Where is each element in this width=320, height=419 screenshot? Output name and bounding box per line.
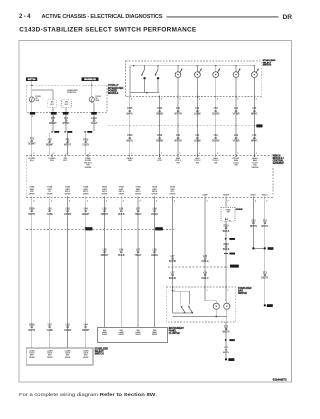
pin tick bottom row 11 bbox=[226, 196, 229, 202]
pin tick top row 6 bbox=[160, 153, 163, 157]
svg-text:DRVR: DRVR bbox=[83, 194, 89, 196]
cluster pin label 4 bbox=[152, 330, 158, 336]
wire switch output 6 upper segment bbox=[235, 96, 237, 155]
svg-text:2: 2 bbox=[217, 153, 218, 155]
wire switch output 1 upper segment bbox=[129, 96, 131, 155]
connector C310 in-line on diode output bbox=[225, 238, 235, 240]
svg-text:PK/LB: PK/LB bbox=[118, 255, 125, 257]
indicator lamp DS2 bbox=[224, 288, 230, 316]
wire module output 5 to connector row bbox=[104, 198, 106, 230]
wire harness mid 3 to cluster box bbox=[137, 229, 139, 327]
svg-text:2: 2 bbox=[256, 153, 257, 155]
wire label lamp feed lower bbox=[169, 273, 176, 280]
ground G302 bbox=[225, 358, 235, 361]
node ignition feed junction bbox=[91, 84, 93, 86]
wire label F91 20 WT lower bbox=[64, 139, 72, 146]
svg-text:PK/LB: PK/LB bbox=[118, 214, 125, 216]
cluster name label bbox=[169, 328, 185, 335]
svg-text:4: 4 bbox=[266, 201, 267, 203]
svg-text:4: 4 bbox=[33, 201, 34, 203]
svg-text:3: 3 bbox=[237, 99, 238, 101]
wire label module output 6 bbox=[118, 209, 125, 216]
wire relay K1 to TIPM pin bbox=[52, 107, 54, 112]
wire switch output 7 upper segment bbox=[253, 96, 255, 155]
pin tick bottom row 2 bbox=[50, 196, 53, 202]
svg-text:4: 4 bbox=[87, 201, 88, 203]
page header text bbox=[19, 13, 163, 20]
svg-text:DRVR: DRVR bbox=[118, 194, 124, 196]
svg-text:DRVR: DRVR bbox=[47, 194, 53, 196]
wire circuit F91 lower bbox=[67, 133, 69, 156]
junction pin mark row C2 wire 2 bbox=[159, 125, 161, 127]
pin 4 TIPM connector bbox=[91, 112, 97, 118]
pin function label bottom 3 bbox=[65, 186, 71, 196]
pin 5 switch connector tick bbox=[216, 96, 218, 101]
power feed label BATT A0 bbox=[26, 77, 37, 81]
svg-text:BK/TN: BK/TN bbox=[223, 332, 230, 334]
svg-text:4: 4 bbox=[69, 201, 70, 203]
module TIPM (Totally Integrated Power Module) dashed outline bbox=[26, 85, 107, 112]
pin tick top row 10 bbox=[236, 153, 239, 157]
svg-text:WT/TN: WT/TN bbox=[174, 113, 182, 115]
svg-text:SW: SW bbox=[234, 165, 237, 167]
node bus junction 4 bbox=[177, 65, 179, 67]
svg-text:YL/GY: YL/GY bbox=[82, 145, 89, 147]
svg-text:DRVR: DRVR bbox=[152, 334, 158, 336]
wire label mid 2 lower bbox=[118, 250, 125, 257]
svg-text:GND 1: GND 1 bbox=[251, 194, 257, 196]
pin 6 switch connector tick bbox=[236, 96, 238, 101]
wire label circuit 1 upper bbox=[127, 108, 134, 115]
svg-text:DRVR: DRVR bbox=[65, 357, 71, 359]
svg-text:4: 4 bbox=[228, 201, 229, 203]
pin tick top row 9 bbox=[216, 153, 219, 157]
wire label module output 5 bbox=[101, 209, 109, 216]
junction pin mark row C2 wire 1 bbox=[129, 125, 131, 127]
svg-text:BK/TN: BK/TN bbox=[28, 214, 35, 216]
svg-text:DG/WT: DG/WT bbox=[28, 144, 36, 146]
pin function label bottom 8 bbox=[152, 186, 158, 196]
svg-text:LB/RD: LB/RD bbox=[151, 255, 158, 257]
svg-text:2: 2 bbox=[131, 153, 132, 155]
svg-text:SW: SW bbox=[214, 162, 217, 164]
connector C1 label bbox=[85, 227, 93, 230]
svg-text:BK/OR: BK/OR bbox=[169, 261, 176, 263]
wire label module output 4 bbox=[82, 209, 90, 216]
fuse F2 value label bbox=[95, 96, 101, 102]
pin tick top row 7 bbox=[178, 153, 181, 157]
svg-text:2: 2 bbox=[33, 153, 34, 155]
svg-text:WT/VT: WT/VT bbox=[64, 145, 72, 147]
junction mark row C1 wire 3 bbox=[67, 228, 69, 230]
svg-text:RLY: RLY bbox=[65, 104, 69, 106]
pin function label position 2 bbox=[194, 157, 201, 164]
cluster pin label 3 bbox=[135, 330, 141, 336]
pin tick bottom row 5 bbox=[105, 196, 108, 202]
svg-text:BK/TN: BK/TN bbox=[261, 278, 268, 280]
pin tick bottom row 12 bbox=[253, 196, 256, 202]
wire circuit F202 from TIPM pin 4 upper bbox=[93, 115, 95, 132]
pin function label position 1 bbox=[175, 157, 182, 164]
svg-text:SW: SW bbox=[176, 162, 179, 164]
wire label circuit 5 lower bbox=[212, 135, 220, 142]
wire label circuit 4 upper bbox=[194, 108, 201, 115]
wire label left 3 lower bbox=[64, 325, 72, 332]
switch assembly pin label 4 bbox=[83, 350, 89, 359]
svg-text:DRVR: DRVR bbox=[119, 334, 125, 336]
wire module output 1 to connector row bbox=[31, 198, 33, 230]
svg-text:SWITCH: SWITCH bbox=[238, 293, 247, 295]
wire circuit F35 lower bbox=[49, 133, 51, 156]
svg-text:OR/WT: OR/WT bbox=[82, 214, 90, 216]
switch assembly pin label 2 bbox=[47, 350, 53, 359]
svg-text:OUT: OUT bbox=[63, 160, 68, 162]
pin function label stabilizer sense bbox=[84, 157, 93, 169]
connector C111 in-line on F91 bbox=[65, 131, 73, 133]
pin function label bottom 4 bbox=[83, 186, 89, 196]
wire label lamp driver upper bbox=[201, 256, 208, 263]
switch S2 stabilizer bar switch dashed outline bbox=[166, 287, 235, 322]
switch position contact 1 (circled) bbox=[175, 66, 182, 97]
svg-text:BR/YL: BR/YL bbox=[251, 140, 258, 142]
wire label F91 20 WT upper bbox=[62, 118, 70, 125]
pin tick bottom row 9 bbox=[173, 196, 176, 202]
relay K2 (TIPM) dashed box bbox=[62, 100, 72, 108]
schematic border frame bbox=[19, 41, 292, 383]
wire switch bus bottom bbox=[130, 92, 160, 94]
svg-text:BK/OR: BK/OR bbox=[169, 278, 176, 280]
relay K1 (TIPM) dashed box bbox=[48, 100, 57, 108]
svg-text:DRVR: DRVR bbox=[170, 194, 176, 196]
pin tick bottom row 8 bbox=[155, 196, 158, 202]
svg-text:4: 4 bbox=[174, 201, 175, 203]
switch assembly name label bbox=[95, 347, 109, 355]
pin tick bar switch 1 bbox=[173, 286, 175, 292]
svg-text:TN/GY: TN/GY bbox=[134, 214, 141, 216]
switch S2 throw contact B bbox=[189, 291, 191, 304]
pin function label bottom gnd 2 bbox=[262, 194, 268, 196]
svg-text:3: 3 bbox=[161, 99, 162, 101]
TIPM internal node label bbox=[67, 89, 78, 94]
pin tick bottom row 7 bbox=[138, 196, 141, 202]
svg-text:SW: SW bbox=[196, 162, 199, 164]
wire label lamp driver lower bbox=[201, 273, 208, 280]
switch position contact 2 (circled) bbox=[195, 66, 202, 97]
switch wiper contact 2 bbox=[155, 66, 159, 80]
wire label mid 4 lower bbox=[151, 250, 158, 257]
node bus junction 2 bbox=[144, 65, 146, 67]
svg-text:LAMP: LAMP bbox=[202, 193, 208, 196]
svg-text:GATEWAY: GATEWAY bbox=[273, 162, 285, 165]
wire TIPM internal branch to relay bbox=[32, 90, 53, 100]
wire module output 4 to connector row bbox=[85, 198, 87, 230]
wire TIPM ignition feed to fuse F2 bbox=[91, 85, 93, 96]
connector C311 marker on diode output bbox=[224, 253, 235, 255]
svg-text:YL/BK: YL/BK bbox=[46, 330, 53, 332]
wire module to diode D1 bbox=[225, 198, 227, 208]
connector C2 label lower bbox=[155, 227, 163, 230]
switch position contact 4 (circled) bbox=[233, 66, 240, 97]
cluster pin label 1 bbox=[102, 330, 108, 336]
wire label F35 20 RD lower bbox=[46, 139, 54, 146]
svg-text:SENSE: SENSE bbox=[85, 167, 92, 169]
pin 4 switch connector tick bbox=[197, 96, 199, 101]
pin function label fused ign bbox=[49, 158, 56, 162]
wire label circuit 7 lower bbox=[251, 135, 258, 142]
pin tick bottom row 10 bbox=[205, 196, 208, 202]
wire label circuit 2 lower bbox=[156, 135, 164, 142]
svg-text:30A: 30A bbox=[35, 99, 39, 102]
svg-text:OR/BK: OR/BK bbox=[156, 140, 164, 142]
wire fuse F1 to TIPM pin bbox=[31, 102, 33, 113]
svg-text:YL/BK: YL/BK bbox=[46, 214, 53, 216]
svg-text:ACTIVE CHASSIS - ELECTRICAL DI: ACTIVE CHASSIS - ELECTRICAL DIAGNOSTICS bbox=[42, 14, 163, 20]
wire switch output 2 upper segment bbox=[159, 96, 161, 155]
wire fuse F2 to TIPM pin bbox=[92, 102, 94, 113]
wire module output 2 to connector row bbox=[49, 198, 51, 230]
switch position contact 3 (circled) bbox=[213, 66, 220, 97]
wire label circuit 6 upper bbox=[233, 108, 240, 115]
switch assembly connector box bbox=[26, 348, 93, 365]
module TIPM name label bbox=[108, 84, 124, 95]
svg-text:DRVR: DRVR bbox=[65, 194, 71, 196]
svg-text:20A: 20A bbox=[95, 99, 99, 102]
svg-text:DRVR: DRVR bbox=[29, 194, 35, 196]
connector C112 in-line on F202 bbox=[85, 131, 93, 133]
footer note bbox=[19, 392, 157, 397]
wire harness mid 1 to cluster box bbox=[104, 229, 106, 327]
svg-text:IGN-RUN A22: IGN-RUN A22 bbox=[84, 78, 95, 81]
pin function label bottom 9 bbox=[170, 186, 176, 196]
svg-text:B(+): B(+) bbox=[30, 160, 34, 162]
svg-text:2 - 4: 2 - 4 bbox=[19, 13, 31, 20]
svg-text:2: 2 bbox=[161, 153, 162, 155]
header DR bbox=[283, 14, 293, 21]
switch position contact 5 (circled) bbox=[252, 66, 259, 97]
wire TIPM internal batt feed bbox=[31, 85, 33, 96]
junction mark row C309 at 226.0 bbox=[225, 266, 227, 268]
junction mark row C1 wire 6 bbox=[120, 228, 122, 230]
svg-text:BK/LB: BK/LB bbox=[223, 231, 230, 233]
pin tick bar switch 2 bbox=[205, 286, 207, 292]
svg-text:4: 4 bbox=[51, 201, 52, 203]
svg-text:MODULE: MODULE bbox=[108, 92, 119, 95]
svg-text:DRVR: DRVR bbox=[83, 357, 89, 359]
svg-text:DRVR: DRVR bbox=[135, 334, 141, 336]
wire harness left 3 to switch assembly bbox=[67, 229, 69, 348]
svg-text:BR/YL: BR/YL bbox=[251, 113, 258, 115]
switch assembly pin label 3 bbox=[65, 350, 71, 359]
svg-text:LB/RD: LB/RD bbox=[151, 214, 158, 216]
pin 3 TIPM connector bbox=[63, 112, 69, 118]
switch assembly pin label 1 bbox=[29, 350, 35, 359]
wire circuit F91 from TIPM pin 3 upper bbox=[65, 115, 67, 132]
wire label F35 20 RD upper bbox=[49, 118, 57, 125]
pin 7 switch connector tick bbox=[254, 96, 256, 101]
wire diode D1 output bbox=[225, 221, 227, 287]
svg-text:GY/RD: GY/RD bbox=[64, 330, 72, 332]
node bus junction 7 bbox=[235, 65, 237, 67]
pin function label position 5 bbox=[252, 157, 259, 169]
svg-text:1: 1 bbox=[227, 290, 228, 292]
wire harness left 4 to switch assembly bbox=[85, 229, 87, 348]
svg-text:DB/WT: DB/WT bbox=[101, 255, 109, 257]
pin function label bottom 6 bbox=[118, 186, 124, 196]
svg-text:CLUSTER: CLUSTER bbox=[169, 333, 180, 335]
pin tick bottom row 1 bbox=[32, 196, 35, 202]
pin function label bottom diode bbox=[223, 194, 230, 196]
module band top connector row bbox=[26, 154, 271, 156]
ground G301 bbox=[264, 304, 273, 307]
switch S2 contact bus bbox=[173, 312, 192, 314]
svg-text:BK/TN: BK/TN bbox=[261, 226, 268, 228]
junction mark row C1 wire 2 bbox=[49, 228, 51, 230]
svg-text:CONTROL: CONTROL bbox=[67, 92, 76, 94]
svg-text:OR/WT: OR/WT bbox=[82, 330, 90, 332]
wire label circuit 6 lower bbox=[233, 135, 240, 142]
svg-text:DIM: DIM bbox=[128, 160, 132, 162]
svg-text:YL/GY: YL/GY bbox=[91, 123, 98, 125]
node battery feed junction bbox=[31, 84, 33, 86]
node bus junction 1 bbox=[133, 65, 135, 67]
diode D1 internal label bbox=[226, 209, 232, 214]
svg-text:OR/LG: OR/LG bbox=[201, 261, 208, 263]
switch S2 wiper A bbox=[181, 306, 186, 314]
svg-text:TN/GY: TN/GY bbox=[134, 255, 141, 257]
fuse F1 (TIPM) bbox=[29, 97, 34, 102]
switch S2 internal feed bbox=[172, 288, 174, 313]
svg-text:D1: D1 bbox=[229, 221, 231, 223]
node bottom bus junction bbox=[146, 92, 148, 94]
pin function label sw return bbox=[158, 158, 163, 162]
svg-text:3: 3 bbox=[131, 99, 132, 101]
svg-text:81b9d972: 81b9d972 bbox=[273, 378, 287, 382]
svg-text:RD/WT: RD/WT bbox=[49, 123, 57, 125]
wire from BATT A0 feed to TIPM bbox=[31, 81, 33, 85]
svg-text:BK/TN: BK/TN bbox=[223, 352, 229, 354]
svg-text:4: 4 bbox=[123, 201, 124, 203]
svg-text:DRVR: DRVR bbox=[152, 194, 158, 196]
wire switch output left leg exit bbox=[129, 93, 131, 97]
wire module output 8 to connector row bbox=[154, 198, 156, 230]
wire label left 2 lower bbox=[46, 325, 53, 332]
wire label mid 1 lower bbox=[101, 250, 109, 257]
svg-text:2: 2 bbox=[238, 153, 239, 155]
module band left edge bbox=[25, 155, 27, 197]
wire wiper 1 to bottom bus bbox=[144, 79, 146, 92]
switch wiper contact 1 bbox=[141, 66, 145, 80]
wire from IGNITION-RUN feed to TIPM bbox=[91, 81, 93, 85]
pin tick top row 4 bbox=[88, 153, 91, 157]
junction mark row C1 wire 5 bbox=[104, 228, 106, 230]
diagram id number bbox=[273, 378, 287, 382]
svg-text:2: 2 bbox=[180, 153, 181, 155]
connector C1 in-line row lower bbox=[26, 228, 174, 230]
svg-text:RLY: RLY bbox=[50, 104, 54, 106]
wire label left 4 lower bbox=[82, 325, 90, 332]
junction pin mark row C2 wire 7 bbox=[253, 125, 255, 127]
svg-text:2: 2 bbox=[67, 153, 68, 155]
pin tick top row 3 bbox=[65, 153, 68, 157]
wire label module output 2 bbox=[46, 209, 53, 216]
header rule bbox=[167, 16, 279, 18]
cluster pin label 2 bbox=[119, 330, 125, 336]
wire label F202 20 YL lower bbox=[82, 139, 89, 146]
wire module output 6 to connector row bbox=[120, 198, 122, 230]
connector C2 in-line row (switch harness) bbox=[108, 124, 263, 127]
fuse F1 value label bbox=[35, 96, 41, 102]
pin tick top row 1 bbox=[32, 153, 35, 157]
wire label module output 7 bbox=[134, 209, 141, 216]
pin 3 switch connector tick bbox=[178, 96, 180, 101]
junction pin mark row C2 wire 5 bbox=[215, 125, 217, 127]
pin function label position 4 bbox=[233, 158, 241, 167]
svg-text:3: 3 bbox=[179, 99, 180, 101]
wire switch output 5 upper segment bbox=[215, 96, 217, 155]
pin tick bottom row 3 bbox=[68, 196, 71, 202]
wire circuit F23 from TIPM pin 1 bbox=[31, 115, 33, 156]
svg-text:IGN: IGN bbox=[50, 160, 54, 162]
junction mark row C1 wire 4 bbox=[85, 228, 87, 230]
wire label lamp feed upper bbox=[169, 256, 176, 263]
svg-text:DRVR: DRVR bbox=[102, 194, 108, 196]
wire label bar switch ground 1 bbox=[223, 326, 230, 333]
switch S2 internal link bbox=[173, 290, 190, 292]
pin tick top row 5 bbox=[130, 153, 133, 157]
pin function label bottom 2 bbox=[47, 186, 53, 196]
wire label bar switch ground 2 bbox=[223, 347, 229, 354]
wire harness mid 2 to cluster box bbox=[120, 229, 122, 327]
svg-text:WT/TN: WT/TN bbox=[174, 140, 182, 142]
svg-text:DRVR: DRVR bbox=[47, 357, 53, 359]
pin function label bottom 7 bbox=[135, 186, 141, 196]
svg-text:DRVR: DRVR bbox=[135, 194, 141, 196]
wire wiper 2 to bottom bus bbox=[157, 79, 159, 92]
wire ground branch 1 from module bbox=[252, 198, 254, 249]
pin 2 TIPM connector bbox=[51, 112, 57, 118]
module band name label bbox=[273, 155, 285, 165]
svg-text:DG/RD: DG/RD bbox=[212, 113, 220, 115]
junction pin mark row C2 wire 3 bbox=[177, 125, 179, 127]
svg-text:C143D-STABILIZER SELECT SWITCH: C143D-STABILIZER SELECT SWITCH PERFORMAN… bbox=[19, 27, 197, 34]
wire label F202 20 YL upper bbox=[91, 118, 98, 125]
svg-text:RD/WT: RD/WT bbox=[46, 145, 54, 147]
pin 1 TIPM connector bbox=[30, 112, 35, 118]
pin function label bottom 1 bbox=[29, 186, 35, 196]
wire label ground branch 1 bbox=[250, 221, 257, 228]
node bus junction 8 bbox=[254, 65, 256, 67]
pin tick top row 8 bbox=[197, 153, 200, 157]
pin tick bottom row 4 bbox=[86, 196, 89, 202]
wire label F23 20 DG bbox=[28, 138, 36, 145]
wire switch output 3 upper segment bbox=[177, 96, 179, 155]
wire module output 3 to connector row bbox=[67, 198, 69, 230]
diode D1 dashed box bbox=[221, 208, 235, 222]
svg-text:3: 3 bbox=[256, 99, 257, 101]
module band right edge bbox=[272, 168, 274, 196]
svg-text:OR/LG: OR/LG bbox=[201, 278, 208, 280]
svg-text:DG/RD: DG/RD bbox=[212, 140, 220, 142]
svg-text:4: 4 bbox=[140, 201, 141, 203]
wire label ground branch 2 bbox=[261, 221, 268, 228]
power feed label IGNITION-RUN A22 bbox=[82, 77, 99, 81]
wire switch common bus bbox=[130, 65, 254, 67]
svg-text:GY/RD: GY/RD bbox=[64, 214, 72, 216]
wire label module output 8 bbox=[151, 209, 158, 216]
svg-text:4: 4 bbox=[207, 201, 208, 203]
fuse F2 (TIPM) bbox=[89, 97, 94, 102]
svg-text:SWITCH: SWITCH bbox=[263, 65, 272, 67]
